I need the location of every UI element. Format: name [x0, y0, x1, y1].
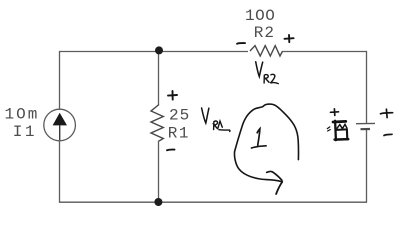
current source I1 circle — [44, 109, 76, 141]
node B junction dot bottom — [154, 198, 162, 206]
svg-text:I1: I1 — [13, 123, 37, 141]
svg-text:R1: R1 — [168, 124, 190, 142]
wire bottom segment — [59, 201, 366, 203]
wire left branch — [59, 51, 61, 203]
wire top-left segment — [60, 51, 248, 53]
resistor R1 zigzag — [151, 105, 163, 142]
wire top-right segment — [283, 51, 367, 53]
battery V1 short plate — [361, 128, 371, 130]
handwritten minus below R1 — [167, 149, 175, 152]
wire right branch — [366, 51, 368, 203]
node A junction dot top — [155, 46, 163, 54]
handwritten scribble (crossed-out label) left of battery — [327, 121, 348, 140]
resistor R2 zigzag — [250, 46, 283, 56]
handwritten minus right of battery — [384, 134, 392, 135]
handwritten digit 1 inside loop — [252, 129, 267, 148]
handwritten plus right of R2 — [285, 35, 294, 42]
svg-text:1OO: 1OO — [245, 7, 275, 25]
mesh current loop 1 arrow — [234, 104, 298, 194]
wire middle branch — [158, 50, 160, 202]
handwritten plus left of battery — [331, 109, 339, 116]
svg-text:R2: R2 — [254, 24, 275, 42]
battery V1 long plate — [356, 122, 375, 124]
current source I1 arrow — [53, 113, 67, 126]
handwritten label V_R1 — [202, 108, 230, 132]
svg-text:1Om: 1Om — [5, 105, 40, 123]
svg-text:25: 25 — [169, 107, 190, 125]
handwritten plus right of battery — [381, 109, 393, 117]
handwritten label V_R2 — [256, 62, 279, 84]
handwritten minus left of R2 — [237, 42, 245, 45]
handwritten plus above R1 — [168, 91, 177, 100]
